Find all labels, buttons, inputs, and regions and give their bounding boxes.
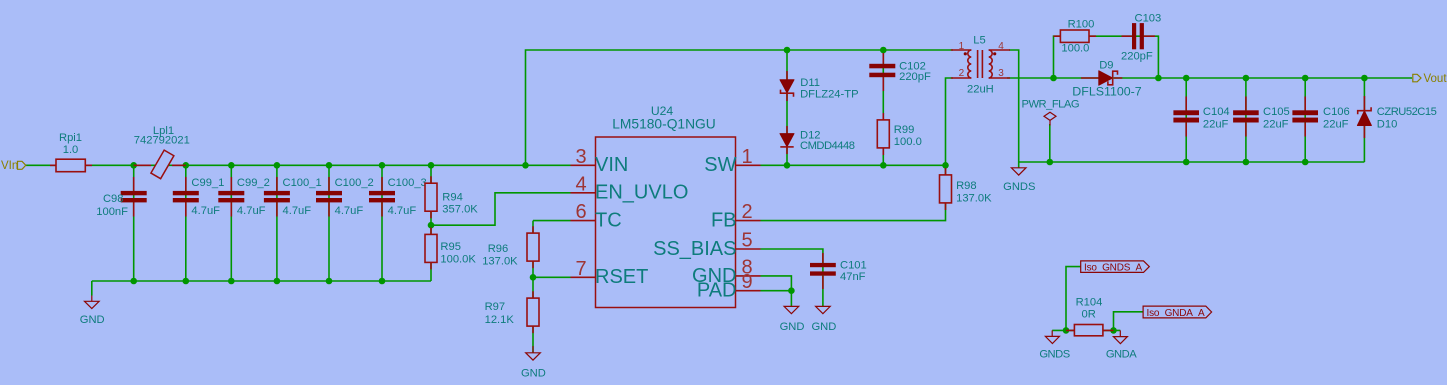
svg-text:L5: L5 — [973, 34, 985, 46]
pin 3 VIN — [571, 146, 629, 176]
svg-text:4: 4 — [575, 173, 586, 195]
svg-text:C103: C103 — [1135, 12, 1162, 24]
svg-text:100nF: 100nF — [96, 206, 128, 218]
capacitor C106 — [1292, 97, 1349, 137]
svg-text:2: 2 — [741, 201, 752, 223]
svg-text:C105: C105 — [1263, 106, 1290, 118]
resistor R95 — [425, 228, 476, 270]
svg-text:Rpi1: Rpi1 — [59, 132, 82, 144]
wire SW rail — [761, 164, 946, 166]
wire main input rail — [26, 164, 571, 166]
wire R94 R95 divider vertical — [430, 165, 432, 281]
svg-text:22uF: 22uF — [1263, 118, 1289, 130]
svg-text:22uH: 22uH — [967, 83, 994, 95]
svg-text:Vout: Vout — [1424, 73, 1447, 85]
capacitor C98 — [96, 177, 146, 218]
wire C100_1 vertical — [276, 165, 278, 281]
svg-text:357.0K: 357.0K — [442, 204, 478, 216]
node Iso_GNDS_A hierarchical label — [1081, 261, 1150, 274]
ground GND input rail — [80, 296, 105, 327]
svg-text:47nF: 47nF — [840, 271, 866, 283]
wire PWR_FLAG stem — [1049, 124, 1051, 162]
capacitor C101 — [810, 253, 867, 289]
wire C104 vertical — [1185, 78, 1187, 162]
svg-text:4.7uF: 4.7uF — [237, 205, 266, 217]
ground GNDS bottom — [1039, 330, 1069, 360]
wire top loop from VIN rail to transformer pin1 — [526, 50, 954, 165]
svg-text:22uF: 22uF — [1323, 118, 1349, 130]
svg-text:4.7uF: 4.7uF — [283, 205, 312, 217]
svg-text:100.0: 100.0 — [894, 136, 922, 148]
svg-text:4.7uF: 4.7uF — [388, 205, 417, 217]
svg-text:GND: GND — [811, 321, 836, 333]
wire R96 R97 vertical — [532, 221, 534, 353]
port Vout output — [1413, 73, 1447, 85]
wire C102 R99 vertical — [882, 50, 884, 165]
svg-text:D10: D10 — [1377, 118, 1398, 130]
diode D10 zener CZRU52C15 — [1357, 96, 1436, 138]
capacitor C102 — [869, 53, 931, 91]
svg-text:GND: GND — [521, 367, 546, 379]
svg-text:GNDS: GNDS — [1039, 349, 1069, 361]
svg-text:R96: R96 — [488, 243, 509, 255]
svg-text:C100_3: C100_3 — [388, 177, 427, 189]
capacitor C100_1 — [264, 177, 322, 217]
wire output rail — [1007, 77, 1412, 79]
resistor R97 — [485, 291, 539, 333]
power flag PWR_FLAG — [1022, 99, 1080, 126]
svg-text:SW: SW — [704, 154, 736, 176]
svg-text:137.0K: 137.0K — [956, 193, 992, 205]
svg-text:6: 6 — [575, 201, 586, 223]
op-amp U24 LM5180-Q1NGU body — [596, 104, 736, 307]
wire C99_2 vertical — [230, 165, 232, 281]
wire R104 rail — [1052, 329, 1120, 331]
pin 7 RSET — [571, 258, 649, 288]
svg-text:100.0: 100.0 — [1061, 42, 1089, 54]
svg-text:7: 7 — [575, 258, 586, 280]
svg-text:R98: R98 — [956, 180, 977, 192]
svg-text:VIn: VIn — [1, 160, 18, 172]
svg-text:PAD: PAD — [697, 280, 737, 302]
svg-text:C104: C104 — [1203, 106, 1230, 118]
svg-text:DFLS1100-7: DFLS1100-7 — [1072, 85, 1141, 99]
svg-text:220pF: 220pF — [1121, 51, 1153, 63]
diode D9 schottky DFLS1100-7 — [1072, 60, 1141, 99]
svg-text:LM5180-Q1NGU: LM5180-Q1NGU — [612, 117, 716, 132]
svg-text:DFLZ24-TP: DFLZ24-TP — [800, 89, 858, 101]
svg-text:PWR_FLAG: PWR_FLAG — [1022, 99, 1080, 111]
svg-text:GND: GND — [780, 321, 805, 333]
wire SS_BIAS to C101 — [761, 249, 823, 306]
svg-text:R94: R94 — [442, 192, 463, 204]
pin 8 GND — [692, 256, 760, 286]
capacitor C105 — [1233, 97, 1290, 137]
svg-text:12.1K: 12.1K — [485, 314, 515, 326]
svg-text:R100: R100 — [1068, 19, 1095, 31]
svg-text:22uF: 22uF — [1203, 118, 1229, 130]
resistor R96 — [482, 226, 539, 268]
svg-text:C98: C98 — [103, 193, 124, 205]
wire C98 vertical — [133, 165, 135, 281]
svg-text:R99: R99 — [894, 124, 915, 136]
resistor Rpi1 — [50, 132, 92, 172]
svg-text:VIN: VIN — [595, 154, 628, 176]
svg-text:220pF: 220pF — [899, 71, 931, 83]
svg-text:CMDD4448: CMDD4448 — [800, 140, 855, 152]
wire C105 vertical — [1245, 78, 1247, 162]
resistor R94 — [425, 176, 478, 218]
resistor R98 — [940, 168, 993, 210]
pin 4 EN_UVLO — [571, 173, 689, 203]
pin 2 FB — [711, 201, 761, 231]
wire divider tap to EN_UVLO — [431, 193, 571, 225]
svg-text:2: 2 — [959, 68, 965, 79]
svg-text:Iso_GNDA_A: Iso_GNDA_A — [1147, 308, 1206, 319]
ground GNDS under transformer — [1003, 168, 1035, 193]
wire secondary ground rail — [1019, 161, 1365, 163]
wire transformer pin4 down to GNDS — [1009, 50, 1019, 168]
wire C100_2 vertical — [328, 165, 330, 281]
svg-text:FB: FB — [711, 210, 737, 232]
svg-text:1: 1 — [741, 146, 752, 168]
svg-text:EN_UVLO: EN_UVLO — [595, 182, 688, 204]
capacitor C103 — [1121, 12, 1161, 62]
svg-text:100.0K: 100.0K — [440, 254, 476, 266]
ground GND under R97 — [521, 346, 546, 379]
wire D10 vertical — [1363, 78, 1365, 162]
capacitor C104 — [1173, 97, 1229, 137]
ferrite bead Lpl1 — [134, 125, 190, 179]
svg-text:D9: D9 — [1099, 60, 1113, 72]
node Iso_GNDA_A hierarchical label — [1143, 306, 1212, 319]
pin 9 PAD — [697, 271, 761, 301]
svg-text:SS_BIAS: SS_BIAS — [653, 238, 736, 260]
svg-text:5: 5 — [741, 230, 752, 252]
wire Iso_GNDS_A drop — [1066, 267, 1081, 331]
capacitor C99_2 — [218, 177, 270, 217]
resistor R99 — [877, 113, 922, 155]
wire C99_1 vertical — [185, 165, 187, 281]
wire Iso_GNDA_A riser — [1114, 312, 1144, 331]
svg-text:1: 1 — [959, 41, 965, 52]
wire input ground rail — [92, 280, 431, 282]
svg-text:GND: GND — [80, 314, 105, 326]
svg-text:742792021: 742792021 — [134, 135, 190, 147]
svg-text:C106: C106 — [1323, 106, 1350, 118]
wire C106 vertical — [1304, 78, 1306, 162]
svg-text:R97: R97 — [485, 301, 506, 313]
svg-text:4.7uF: 4.7uF — [191, 205, 220, 217]
wire GND pin8 — [761, 276, 792, 291]
svg-text:R104: R104 — [1076, 297, 1103, 309]
svg-text:C100_1: C100_1 — [283, 177, 322, 189]
capacitor C99_1 — [173, 177, 225, 217]
wire RSET tap — [533, 276, 571, 278]
diode D12 CMDD4448 — [780, 126, 855, 154]
svg-text:GNDA: GNDA — [1106, 349, 1137, 361]
svg-text:TC: TC — [595, 210, 622, 232]
capacitor C100_2 — [316, 177, 374, 217]
ground GND under C101 — [811, 306, 836, 333]
svg-text:4: 4 — [998, 41, 1004, 52]
svg-text:4.7uF: 4.7uF — [335, 205, 364, 217]
resistor R104 — [1066, 297, 1114, 336]
pin 6 TC — [571, 201, 622, 231]
svg-text:C101: C101 — [840, 259, 867, 271]
svg-text:3: 3 — [998, 68, 1004, 79]
svg-text:C99_2: C99_2 — [237, 177, 270, 189]
svg-text:D11: D11 — [800, 77, 820, 89]
pin 5 SS_BIAS — [653, 230, 760, 260]
pin 1 SW — [704, 146, 760, 176]
svg-text:Iso_GNDS_A: Iso_GNDS_A — [1084, 263, 1143, 274]
ground GND pin9 — [780, 306, 805, 333]
wire R100 C103 snubber loop — [1054, 36, 1159, 78]
svg-text:CZRU52C15: CZRU52C15 — [1377, 106, 1437, 118]
svg-text:9: 9 — [741, 271, 752, 293]
svg-text:0R: 0R — [1082, 309, 1096, 321]
wire TC to R96 — [533, 220, 571, 222]
wire C100_3 vertical — [381, 165, 383, 281]
wire PAD pin9 — [761, 291, 792, 307]
transformer L5 22uH — [951, 34, 1010, 95]
svg-text:R95: R95 — [440, 241, 461, 253]
svg-text:C99_1: C99_1 — [191, 177, 224, 189]
diode D11 zener DFLZ24-TP — [780, 71, 859, 101]
svg-text:GNDS: GNDS — [1003, 181, 1035, 193]
ground GNDA bottom — [1106, 330, 1137, 360]
svg-text:137.0K: 137.0K — [482, 256, 518, 268]
capacitor C100_3 — [369, 177, 427, 217]
wire GND drop — [91, 281, 93, 296]
svg-text:C100_2: C100_2 — [335, 177, 374, 189]
svg-text:3: 3 — [575, 146, 586, 168]
wire FB to R98 to transformer pin2 — [761, 78, 954, 221]
svg-text:1.0: 1.0 — [63, 144, 79, 156]
port VinD input — [1, 160, 26, 172]
svg-text:RSET: RSET — [595, 266, 648, 288]
wire D11 D12 vertical — [786, 50, 788, 165]
resistor R100 — [1054, 19, 1097, 55]
